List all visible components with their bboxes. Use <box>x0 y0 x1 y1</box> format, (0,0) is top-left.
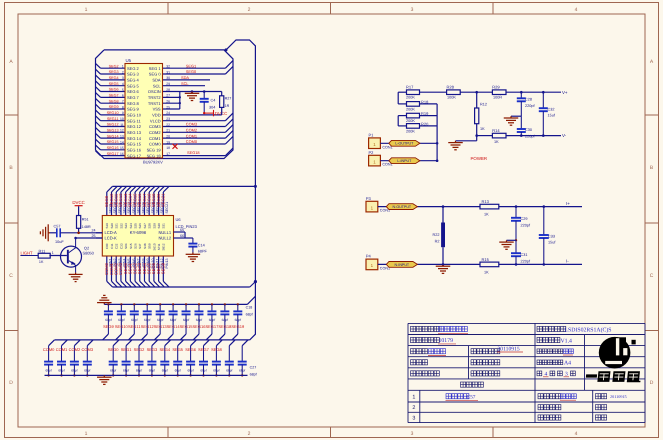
svg-text:SEG15: SEG15 <box>180 324 194 329</box>
svg-text:68pf: 68pf <box>187 368 193 372</box>
U5 right net labels <box>181 63 200 155</box>
LCD bottom pin labels <box>104 259 169 276</box>
svg-text:S59: S59 <box>148 243 152 249</box>
revision row 1 <box>412 394 626 401</box>
svg-text:3: 3 <box>411 7 414 13</box>
svg-text:304: 304 <box>209 106 215 110</box>
svg-text:68pf: 68pf <box>183 318 190 322</box>
port L-OUTPUT <box>389 140 420 146</box>
wire divider right links <box>420 104 439 162</box>
svg-text:30: 30 <box>166 76 170 80</box>
svg-text:SEG19: SEG19 <box>231 324 245 329</box>
svg-text:25: 25 <box>166 105 170 109</box>
capacitor C18 label <box>246 305 253 316</box>
svg-text:SEG14: SEG14 <box>167 324 181 329</box>
svg-text:68pf: 68pf <box>71 368 77 372</box>
svg-text:3: 3 <box>122 76 124 80</box>
svg-text:68pf: 68pf <box>246 313 253 317</box>
capacitor C29 <box>511 205 531 241</box>
svg-text:SEG 12: SEG 12 <box>127 124 142 129</box>
svg-text:L-OUTPUT: L-OUTPUT <box>395 142 414 146</box>
svg-text:C: C <box>9 273 13 279</box>
svg-text:S22: S22 <box>119 223 123 229</box>
LCD top pin wires fan <box>107 186 256 215</box>
wire cap row2 bottom bus <box>45 374 248 376</box>
svg-text:SEG 7: SEG 7 <box>127 95 140 100</box>
svg-text:SEG15: SEG15 <box>107 140 119 144</box>
svg-text:C57: C57 <box>467 394 476 400</box>
svg-text:C28: C28 <box>525 98 532 102</box>
port L-INPUT <box>389 158 420 164</box>
svg-text:SEG1: SEG1 <box>121 347 132 352</box>
ground <box>456 136 477 141</box>
svg-text:1K: 1K <box>494 140 499 144</box>
svg-text:11: 11 <box>120 123 124 127</box>
title block grid <box>408 323 645 422</box>
svg-text:200K: 200K <box>406 119 415 123</box>
svg-text:200K: 200K <box>406 129 415 133</box>
resistor R22 <box>433 205 445 265</box>
capacitor C30 <box>517 116 536 138</box>
svg-text:SEG13: SEG13 <box>107 129 119 133</box>
svg-text:P3: P3 <box>366 196 372 201</box>
capacitor C10 <box>128 303 138 340</box>
svg-text:68pf: 68pf <box>250 373 257 377</box>
svg-text:68pf: 68pf <box>222 318 229 322</box>
svg-text:SCL: SCL <box>153 83 162 88</box>
U5 right pin wires to bus <box>163 61 234 156</box>
svg-text:3: 3 <box>411 431 414 437</box>
svg-text:LIGHT: LIGHT <box>21 251 34 256</box>
svg-text:SEG8: SEG8 <box>161 262 166 274</box>
svg-text:68pf: 68pf <box>162 368 168 372</box>
title row revision header <box>461 382 484 387</box>
svg-text:SEG2: SEG2 <box>109 64 119 68</box>
svg-text:LCD_PIN23: LCD_PIN23 <box>176 224 198 229</box>
oscillator/test pin cluster wires <box>163 90 222 115</box>
svg-text:SEG9: SEG9 <box>103 324 114 329</box>
svg-text:1K: 1K <box>480 127 485 131</box>
svg-text:S04: S04 <box>124 243 128 249</box>
capacitor C12 <box>154 303 164 340</box>
svg-text:C33: C33 <box>548 234 555 238</box>
svg-text:C31: C31 <box>521 253 528 257</box>
power port DVCC <box>203 110 227 116</box>
svg-text:65: 65 <box>180 228 184 232</box>
svg-text:2: 2 <box>122 70 124 74</box>
svg-text:4: 4 <box>575 431 578 437</box>
svg-text:VLCD: VLCD <box>150 118 161 123</box>
ground <box>191 92 193 94</box>
svg-text:POWER: POWER <box>471 156 488 161</box>
resistor R51 <box>77 216 91 233</box>
svg-text:9: 9 <box>122 111 124 115</box>
svg-text:1: 1 <box>85 7 88 13</box>
svg-text:68PF: 68PF <box>198 250 208 254</box>
svg-text:SEG11: SEG11 <box>107 117 119 121</box>
svg-text:S19: S19 <box>105 223 109 229</box>
svg-text:C: C <box>650 273 654 279</box>
svg-text:COM0: COM0 <box>149 142 161 147</box>
svg-text:R14: R14 <box>492 128 500 133</box>
capacitor C32 <box>225 340 235 377</box>
svg-text:R11: R11 <box>39 248 46 253</box>
svg-text:C11: C11 <box>110 243 114 249</box>
svg-text:SEG8: SEG8 <box>109 99 119 103</box>
capacitor C18 <box>232 303 242 340</box>
svg-text:19: 19 <box>166 140 170 144</box>
svg-text:C32: C32 <box>548 107 555 111</box>
wire LCD bottom bus <box>55 280 258 340</box>
svg-text:SEG6: SEG6 <box>185 347 196 352</box>
capacitor C28 <box>517 91 536 116</box>
capacitor C28 <box>173 340 183 377</box>
svg-text:148R: 148R <box>82 225 91 229</box>
capacitor C8 <box>103 303 113 340</box>
svg-text:SEG3: SEG3 <box>147 347 158 352</box>
svg-text:S25: S25 <box>133 223 137 229</box>
power port DVCC <box>72 200 84 216</box>
capacitor C21 <box>70 340 80 377</box>
capacitor C16 <box>206 303 216 340</box>
svg-text:TRST1: TRST1 <box>148 101 161 106</box>
LCD bottom pin wires fan <box>107 256 169 287</box>
svg-text:220pf: 220pf <box>521 259 531 263</box>
capacitor C29 <box>186 340 196 377</box>
svg-text:TRST2: TRST2 <box>148 95 161 100</box>
connector P1 <box>369 132 438 149</box>
svg-text:68pf: 68pf <box>136 368 142 372</box>
capacitor C14 <box>188 238 207 254</box>
svg-text:68pf: 68pf <box>149 368 155 372</box>
capacitor C26 <box>147 340 157 377</box>
svg-text:68pf: 68pf <box>131 318 138 322</box>
svg-text:200K: 200K <box>406 107 415 111</box>
svg-text:10179: 10179 <box>439 338 454 344</box>
svg-text:C18: C18 <box>246 305 253 309</box>
resistor R11 <box>20 248 50 264</box>
connector P2 <box>369 150 438 167</box>
capacitor C9 <box>116 303 126 340</box>
svg-text:COM1: COM1 <box>56 347 68 352</box>
svg-text:1: 1 <box>122 65 124 69</box>
U5 left net labels <box>107 64 119 155</box>
svg-text:SEG13: SEG13 <box>154 324 168 329</box>
resistor R27 <box>220 92 232 115</box>
ground <box>103 303 105 305</box>
capacitor C30 <box>199 340 209 377</box>
ground <box>511 115 521 117</box>
capacitor C25 <box>135 340 145 377</box>
capacitor C15 <box>193 303 203 340</box>
svg-text:15uf: 15uf <box>548 114 556 118</box>
capacitor C19 <box>44 340 54 377</box>
svg-text:SEG6: SEG6 <box>109 88 119 92</box>
svg-text:SEG 11: SEG 11 <box>127 118 141 123</box>
svg-text:C22: C22 <box>115 243 119 249</box>
svg-text:SEG17: SEG17 <box>107 152 119 156</box>
svg-text:68pf: 68pf <box>84 368 90 372</box>
svg-text:SEG 3: SEG 3 <box>127 72 140 77</box>
svg-text:LCD-K: LCD-K <box>105 236 118 241</box>
svg-text:1R: 1R <box>225 104 230 108</box>
svg-text:S29: S29 <box>152 223 156 229</box>
svg-text:S27: S27 <box>143 223 147 229</box>
svg-text:1K: 1K <box>484 270 489 274</box>
svg-text:S610: S610 <box>152 243 156 250</box>
svg-text:N-OUTPUT: N-OUTPUT <box>393 205 412 209</box>
svg-text:A4: A4 <box>564 361 571 367</box>
svg-text:C4: C4 <box>211 99 216 103</box>
svg-text:SEG 15: SEG 15 <box>127 142 142 147</box>
svg-text:SEG 10: SEG 10 <box>127 112 142 117</box>
svg-text:SEG12: SEG12 <box>107 123 119 127</box>
svg-text:C57: C57 <box>54 225 61 229</box>
svg-text:R15: R15 <box>482 257 490 262</box>
capacitor C31 <box>212 340 222 377</box>
svg-text:100R: 100R <box>493 96 502 100</box>
title row file number <box>411 337 573 344</box>
svg-text:R27: R27 <box>225 97 232 101</box>
svg-text:21: 21 <box>166 129 170 133</box>
svg-text:4: 4 <box>122 82 124 86</box>
svg-text:S15: S15 <box>129 243 133 249</box>
svg-text:SEG 16: SEG 16 <box>127 147 142 152</box>
svg-text:1: 1 <box>52 251 54 255</box>
svg-text:COM3: COM3 <box>149 124 161 129</box>
svg-text:SEG3: SEG3 <box>109 70 119 74</box>
resistor R15 <box>480 257 582 275</box>
svg-text:S23: S23 <box>124 223 128 229</box>
svg-text:SEG4: SEG4 <box>159 347 170 352</box>
revision row 3 <box>412 415 606 422</box>
capacitor C20 <box>57 340 67 377</box>
svg-text:S8050: S8050 <box>83 250 95 255</box>
svg-text:P1: P1 <box>369 132 375 137</box>
svg-text:S31: S31 <box>162 223 166 229</box>
svg-text:R13: R13 <box>482 199 490 204</box>
svg-text:27: 27 <box>166 94 170 98</box>
resistor R12 <box>475 91 487 137</box>
svg-text:12: 12 <box>120 129 124 133</box>
svg-text:SCL: SCL <box>181 81 189 86</box>
capacitor C31 <box>511 240 531 265</box>
svg-text:SEG2: SEG2 <box>134 347 145 352</box>
resistor R20 <box>406 121 429 133</box>
svg-text:COM2: COM2 <box>186 128 197 133</box>
svg-text:COM0: COM0 <box>186 139 198 144</box>
svg-text:SEG 6: SEG 6 <box>127 89 140 94</box>
svg-text:24: 24 <box>92 229 96 233</box>
svg-text:2: 2 <box>412 405 415 411</box>
svg-text:13: 13 <box>120 134 124 138</box>
svg-text:P4: P4 <box>366 254 372 259</box>
svg-text:COM3: COM3 <box>82 347 94 352</box>
svg-text:C14: C14 <box>198 243 205 247</box>
svg-text:8: 8 <box>122 105 124 109</box>
svg-text:S21: S21 <box>115 223 119 229</box>
LCD NULL pin wires <box>174 228 193 238</box>
svg-text:N-INPUT: N-INPUT <box>395 263 410 267</box>
svg-text:68pf: 68pf <box>118 318 125 322</box>
svg-text:R22: R22 <box>433 233 440 237</box>
svg-text:68pf: 68pf <box>170 318 177 322</box>
ground <box>75 273 77 275</box>
svg-text:3: 3 <box>412 416 415 422</box>
svg-text:SEG 2: SEG 2 <box>127 66 140 71</box>
svg-text:32: 32 <box>166 65 170 69</box>
svg-text:SDA: SDA <box>181 75 189 80</box>
no-connect X on pin 18 <box>173 144 178 149</box>
capacitor C4 <box>200 92 216 114</box>
connector P4 <box>366 254 481 271</box>
svg-text:DVCC: DVCC <box>72 200 84 205</box>
svg-text:VSS: VSS <box>153 107 161 112</box>
svg-text:U5: U5 <box>126 58 132 63</box>
U5 left pin wires <box>96 63 126 155</box>
svg-text:20110915: 20110915 <box>610 394 627 399</box>
wire SDA SCL stubs <box>163 80 211 86</box>
svg-text:SEG10: SEG10 <box>107 111 119 115</box>
svg-text:SDA: SDA <box>152 77 161 82</box>
svg-text:68pf: 68pf <box>175 368 181 372</box>
svg-text:SEG12: SEG12 <box>141 324 155 329</box>
svg-text:SEG11: SEG11 <box>128 324 141 329</box>
svg-text:31: 31 <box>166 70 170 74</box>
svg-text:S20: S20 <box>110 223 114 229</box>
revision row 2 <box>412 405 606 412</box>
resistor R13 <box>480 199 582 217</box>
capacitor C13 <box>167 303 177 340</box>
svg-text:KY-6098: KY-6098 <box>130 230 147 235</box>
svg-text:LCD-A: LCD-A <box>105 230 118 235</box>
svg-text:14: 14 <box>120 140 124 144</box>
transistor Q2 <box>49 237 94 273</box>
svg-text:D: D <box>9 380 13 386</box>
svg-text:2: 2 <box>248 7 251 13</box>
svg-text:SEG 0: SEG 0 <box>149 72 162 77</box>
svg-text:26: 26 <box>166 99 170 103</box>
svg-text:SEG7: SEG7 <box>109 94 119 98</box>
svg-text:17: 17 <box>166 152 170 156</box>
svg-text:SEG7: SEG7 <box>198 347 209 352</box>
svg-text:V-: V- <box>562 133 567 138</box>
svg-text:1: 1 <box>412 395 415 401</box>
svg-text:SEG 8: SEG 8 <box>127 101 140 106</box>
connector P3 <box>366 196 481 213</box>
svg-text:LSDIS02RS1A(C)S: LSDIS02RS1A(C)S <box>565 326 612 333</box>
capacitor C27 <box>160 340 170 377</box>
svg-text:S812: S812 <box>162 243 166 250</box>
ground <box>48 232 50 234</box>
ground <box>192 253 194 255</box>
LCD left pin wires <box>92 229 103 238</box>
svg-text:68pf: 68pf <box>157 318 164 322</box>
svg-text:7: 7 <box>122 99 124 103</box>
svg-text:100K: 100K <box>447 96 456 100</box>
svg-text:SEG 19: SEG 19 <box>147 147 162 152</box>
svg-text:V1.4: V1.4 <box>561 338 573 344</box>
wire to LCD pins <box>61 232 102 239</box>
capacitor C57 <box>50 225 64 245</box>
chip U5 <box>120 58 170 165</box>
title row drawn-by <box>411 346 574 355</box>
svg-text:R12: R12 <box>480 102 487 106</box>
wire cap row1 bus <box>104 296 255 304</box>
svg-text:VDD: VDD <box>152 112 161 117</box>
svg-text:SEG16: SEG16 <box>107 146 119 150</box>
wire bus ring around U5 <box>96 50 234 159</box>
svg-text:U6: U6 <box>176 217 182 222</box>
ground <box>103 375 105 377</box>
svg-text:200K: 200K <box>406 96 415 100</box>
svg-text:68pf: 68pf <box>226 368 232 372</box>
svg-text:18: 18 <box>166 146 170 150</box>
svg-text:68pf: 68pf <box>213 368 219 372</box>
title row dates pages <box>411 371 576 378</box>
port N-INPUT <box>386 262 417 268</box>
capacitor C17 <box>219 303 229 340</box>
svg-text:20: 20 <box>166 134 170 138</box>
capacitor C33 <box>238 340 248 377</box>
svg-text:L-INPUT: L-INPUT <box>397 159 412 163</box>
svg-text:6: 6 <box>122 94 124 98</box>
svg-text:SEG14: SEG14 <box>107 134 119 138</box>
svg-text:R28: R28 <box>447 84 455 89</box>
svg-text:SEG 5: SEG 5 <box>127 83 140 88</box>
svg-text:V+: V+ <box>562 90 568 95</box>
svg-text:68pf: 68pf <box>45 368 51 372</box>
svg-text:1K: 1K <box>484 213 489 217</box>
svg-text:16: 16 <box>120 152 124 156</box>
svg-text:S26: S26 <box>138 223 142 229</box>
capacitor C22 <box>83 340 93 377</box>
svg-text:S30: S30 <box>157 223 161 229</box>
capacitor C33 <box>539 205 557 265</box>
svg-text:R51: R51 <box>82 218 89 222</box>
wire divider left links <box>398 92 406 126</box>
svg-text:S711: S711 <box>157 243 161 250</box>
svg-text:68pf: 68pf <box>110 368 116 372</box>
svg-text:SEG18: SEG18 <box>218 324 232 329</box>
title row project name <box>411 326 612 333</box>
svg-text:SEG 18: SEG 18 <box>147 153 162 158</box>
svg-text:220pf: 220pf <box>525 104 535 108</box>
svg-text:SEG 14: SEG 14 <box>127 136 142 141</box>
capacitor C32 <box>539 91 556 137</box>
svg-text:SEG 13: SEG 13 <box>127 130 142 135</box>
svg-text:SEG21: SEG21 <box>165 202 169 214</box>
svg-text:COM0: COM0 <box>43 347 55 352</box>
svg-text:COM1: COM1 <box>186 133 197 138</box>
svg-text:15: 15 <box>120 146 124 150</box>
svg-text:SEG5: SEG5 <box>172 347 183 352</box>
svg-text:COM2: COM2 <box>69 347 81 352</box>
svg-text:SEG17: SEG17 <box>205 324 219 329</box>
svg-text:SEG5: SEG5 <box>109 82 119 86</box>
svg-text:D: D <box>650 380 654 386</box>
svg-text:S28: S28 <box>148 223 152 229</box>
svg-text:10uF: 10uF <box>55 240 64 244</box>
svg-text:68pf: 68pf <box>209 318 216 322</box>
resistor R17 <box>406 84 420 99</box>
svg-text:28: 28 <box>166 88 170 92</box>
svg-text:22: 22 <box>166 123 170 127</box>
svg-text:23: 23 <box>166 117 170 121</box>
svg-text:COM3: COM3 <box>186 122 197 127</box>
svg-text:SEG0: SEG0 <box>186 69 197 74</box>
svg-text:SEG8: SEG8 <box>211 347 222 352</box>
